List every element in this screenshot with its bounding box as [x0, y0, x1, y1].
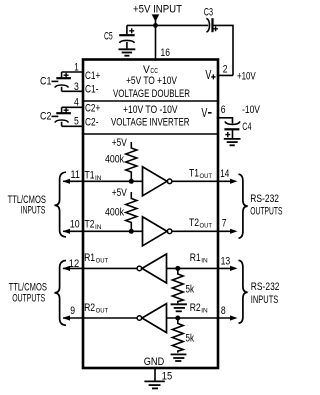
svg-text:V: V [205, 67, 211, 82]
svg-text:+5V INPUT: +5V INPUT [133, 3, 182, 15]
svg-text:GND: GND [144, 356, 164, 368]
svg-text:5k: 5k [186, 283, 195, 295]
brace RS-232 inputs [239, 260, 248, 323]
ground for R3 [171, 304, 187, 311]
wire pin 6 stub [217, 118, 233, 124]
svg-text:3: 3 [74, 81, 79, 93]
wire R2 output [63, 317, 137, 319]
brace RS-232 outputs [239, 174, 248, 238]
op-amp R1 receiver [142, 254, 167, 283]
capacitor C4 [224, 121, 240, 138]
arrow pin 13 [230, 266, 238, 271]
svg-text:VOLTAGE INVERTER: VOLTAGE INVERTER [111, 117, 190, 129]
svg-text:15: 15 [162, 371, 172, 383]
svg-text:OUTPUTS: OUTPUTS [250, 205, 282, 217]
arrow pin 12 [63, 266, 71, 271]
wire top horizontal rail [127, 24, 208, 26]
svg-text:C2+: C2+ [85, 102, 100, 114]
svg-text:INPUTS: INPUTS [21, 205, 45, 217]
arrow pin 8 [230, 315, 238, 320]
svg-text:T1: T1 [85, 169, 95, 181]
svg-text:4: 4 [74, 97, 79, 109]
V- subscript minus [208, 112, 212, 114]
svg-text:OUT: OUT [200, 173, 213, 180]
svg-text:16: 16 [161, 47, 170, 59]
node +5V INPUT arrow [152, 14, 160, 21]
svg-text:+10V TO -10V: +10V TO -10V [123, 104, 178, 116]
brace TTL/CMOS outputs [54, 261, 66, 326]
IC body U1 [83, 60, 218, 369]
svg-text:OUT: OUT [96, 258, 109, 265]
svg-text:R2: R2 [84, 302, 95, 314]
svg-text:+5V: +5V [112, 187, 127, 199]
brace TTL/CMOS inputs [54, 172, 66, 237]
leader C2 label [52, 115, 59, 117]
wire +5V input vertical [155, 20, 157, 25]
arrow pin 10 [63, 229, 71, 234]
svg-text:C1: C1 [40, 76, 51, 88]
wire T2 output [172, 230, 231, 232]
svg-text:C1-: C1- [85, 83, 99, 95]
junction T2 input node [129, 229, 134, 234]
wire T2 input [63, 230, 143, 232]
svg-text:5: 5 [74, 116, 79, 128]
svg-text:7: 7 [222, 218, 227, 230]
svg-text:C4: C4 [242, 121, 251, 133]
capacitor C2 [55, 107, 83, 126]
op-amp R2 receiver [142, 304, 167, 333]
wire R1 input [167, 267, 232, 269]
svg-text:R1: R1 [190, 252, 201, 264]
resistor R3 5k [172, 268, 183, 303]
svg-text:2: 2 [223, 64, 228, 76]
svg-text:INPUTS: INPUTS [251, 294, 278, 306]
svg-text:C2-: C2- [85, 116, 99, 128]
svg-text:R2: R2 [190, 302, 201, 314]
capacitor C5 [119, 25, 135, 48]
svg-text:13: 13 [221, 255, 231, 267]
svg-text:C3: C3 [204, 7, 213, 19]
resistor R4 5k [172, 318, 183, 353]
svg-text:+5V TO +10V: +5V TO +10V [126, 75, 177, 87]
svg-text:C1+: C1+ [85, 70, 100, 82]
ground for R4 [171, 354, 187, 361]
svg-text:IN: IN [201, 258, 208, 265]
wire R1 output [63, 267, 137, 269]
capacitor C3 [206, 18, 218, 32]
svg-text:IN: IN [95, 224, 102, 231]
svg-text:400k: 400k [105, 154, 124, 166]
svg-text:V: V [143, 64, 150, 76]
ground for C4 [224, 139, 241, 145]
svg-text:R1: R1 [84, 252, 95, 264]
svg-text:C2: C2 [40, 111, 51, 123]
svg-text:RS-232: RS-232 [251, 281, 280, 293]
wire pin 2 stub [217, 74, 233, 76]
wire C3 to +10V node [213, 25, 234, 75]
svg-text:V: V [201, 105, 207, 120]
op-amp T2 driver [143, 217, 168, 246]
arrow pin 9 [63, 315, 71, 320]
svg-text:8: 8 [221, 305, 226, 317]
svg-text:5k: 5k [186, 333, 195, 345]
leader C1 label [52, 80, 59, 82]
resistor R1 400k (T1 pull-up) [126, 142, 137, 181]
svg-text:12: 12 [69, 258, 79, 270]
junction R2 input node [175, 316, 180, 321]
svg-text:-10V: -10V [242, 104, 261, 116]
svg-text:T1: T1 [189, 167, 199, 179]
capacitor C1 [55, 72, 83, 91]
junction T1 input node [129, 179, 134, 184]
svg-text:6: 6 [221, 104, 226, 116]
ground pin 15 [144, 381, 164, 388]
section divider 1 [84, 100, 218, 102]
svg-text:IN: IN [201, 308, 208, 315]
svg-text:OUT: OUT [200, 222, 213, 229]
ground for C5 [119, 49, 136, 55]
arrow pin 7 [230, 229, 238, 234]
svg-text:+5V: +5V [112, 137, 127, 149]
wire T1 output [172, 180, 231, 182]
resistor R2 400k (T2 pull-up) [126, 192, 137, 231]
svg-text:14: 14 [220, 168, 229, 180]
section divider 2 [84, 133, 218, 135]
svg-text:RS-232: RS-232 [250, 193, 279, 205]
wire R2 input [167, 317, 232, 319]
svg-text:10: 10 [70, 219, 80, 231]
svg-text:CC: CC [150, 66, 158, 75]
op-amp T1 driver [143, 167, 168, 196]
wire T1 input [63, 180, 143, 182]
svg-text:OUT: OUT [96, 308, 109, 315]
svg-text:+10V: +10V [237, 70, 256, 82]
arrow pin 11 [63, 179, 71, 184]
svg-text:VOLTAGE DOUBLER: VOLTAGE DOUBLER [113, 88, 190, 100]
svg-text:OUTPUTS: OUTPUTS [12, 292, 45, 304]
svg-text:T2: T2 [189, 217, 199, 229]
wire pin 16 [155, 25, 157, 60]
svg-text:IN: IN [95, 175, 102, 182]
svg-text:400k: 400k [105, 207, 124, 219]
svg-text:9: 9 [70, 305, 75, 317]
wire pin 15 [154, 368, 156, 381]
svg-text:C5: C5 [104, 31, 113, 43]
arrow pin 14 [230, 179, 238, 184]
svg-text:11: 11 [71, 169, 80, 181]
V+ subscript plus [211, 74, 215, 79]
svg-text:1: 1 [74, 62, 78, 74]
junction R1 input node [175, 266, 180, 271]
svg-text:T2: T2 [85, 219, 95, 231]
junction top node [153, 23, 158, 28]
